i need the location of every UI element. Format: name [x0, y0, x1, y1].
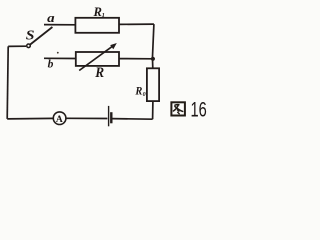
label b — [48, 59, 54, 71]
caption text 16 — [191, 97, 207, 122]
svg-text:0: 0 — [143, 92, 146, 98]
label R0 — [134, 85, 145, 98]
label R1 — [93, 5, 105, 19]
wire R0 to bottom corner — [152, 101, 154, 119]
label S — [26, 28, 35, 43]
wire bottom right — [112, 118, 153, 121]
svg-text:1: 1 — [102, 12, 105, 19]
resistor R1 — [75, 18, 119, 33]
junction node — [151, 57, 155, 61]
rheostat R body — [76, 52, 119, 66]
wire left vertical — [7, 46, 8, 119]
switch S pivot — [27, 44, 31, 48]
label R — [94, 64, 104, 81]
svg-text:S: S — [26, 28, 35, 43]
svg-text:A: A — [56, 115, 63, 125]
node b contact dot — [57, 52, 59, 54]
svg-text:b: b — [48, 59, 54, 71]
wire node b to rheostat — [44, 57, 76, 59]
wire rheostat to junction — [119, 58, 152, 60]
wire top-left to switch — [8, 45, 26, 47]
svg-text:a: a — [47, 11, 55, 25]
wire R1 to right corner — [119, 23, 154, 25]
svg-text:16: 16 — [191, 97, 207, 122]
wire right vertical upper — [152, 24, 154, 59]
wire node a to R1 — [44, 24, 76, 26]
ammeter A — [53, 112, 66, 125]
caption glyph 图 (drawn) — [171, 102, 185, 115]
battery plate short (negative) — [110, 112, 112, 123]
svg-text:R: R — [134, 85, 142, 98]
wire junction to R0 — [152, 59, 154, 69]
resistor R0 — [147, 68, 159, 101]
wire ammeter to bottom left — [7, 117, 53, 120]
svg-text:R: R — [94, 64, 104, 81]
battery plate long (positive) — [108, 106, 110, 126]
switch S lever — [30, 27, 52, 45]
wire battery to ammeter — [66, 117, 108, 119]
rheostat R arrow — [79, 43, 117, 71]
label a — [47, 11, 55, 25]
